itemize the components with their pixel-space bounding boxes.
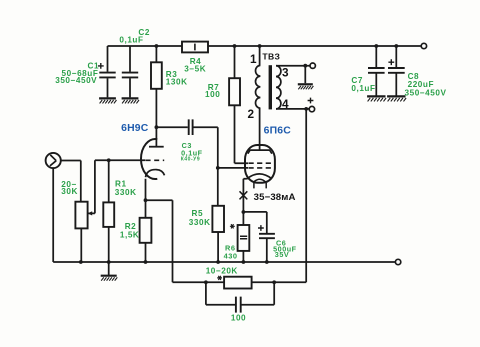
svg-text:6Н9С: 6Н9С	[121, 123, 149, 134]
svg-text:330K: 330K	[189, 218, 211, 227]
svg-text:4: 4	[282, 97, 289, 111]
svg-text:100: 100	[231, 313, 246, 322]
svg-text:1: 1	[250, 52, 257, 66]
svg-text:100: 100	[205, 90, 220, 99]
svg-text:3−5K: 3−5K	[184, 65, 206, 74]
svg-text:350−450V: 350−450V	[405, 88, 447, 97]
svg-text:6П6С: 6П6С	[264, 125, 292, 136]
svg-text:R5: R5	[192, 209, 204, 218]
svg-text:3: 3	[282, 66, 289, 80]
svg-text:130K: 130K	[166, 77, 188, 86]
svg-text:430: 430	[224, 252, 238, 261]
svg-text:ТВЗ: ТВЗ	[262, 52, 280, 62]
svg-text:35−38мА: 35−38мА	[254, 192, 296, 203]
svg-text:30K: 30K	[61, 187, 78, 196]
svg-text:2: 2	[248, 107, 255, 121]
svg-text:0,1uF: 0,1uF	[119, 36, 143, 45]
svg-text:10−20K: 10−20K	[206, 267, 238, 276]
svg-text:1,5K: 1,5K	[120, 230, 139, 239]
svg-text:К40-У9: К40-У9	[181, 156, 200, 162]
svg-text:35V: 35V	[275, 250, 289, 259]
svg-text:330K: 330K	[115, 188, 137, 197]
svg-text:350−450V: 350−450V	[55, 76, 97, 85]
svg-text:0,1uF: 0,1uF	[351, 84, 375, 93]
